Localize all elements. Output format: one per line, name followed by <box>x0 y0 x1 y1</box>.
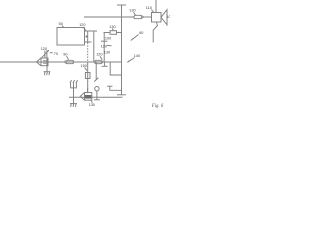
transducer 120 (top, right of box 50) <box>83 27 91 42</box>
label 50 <box>59 22 64 27</box>
flow arrow 130 on top wire <box>134 15 145 20</box>
svg-text:120: 120 <box>41 47 47 51</box>
wire: top horizontal line <box>84 16 134 18</box>
svg-text:120: 120 <box>79 23 85 27</box>
label 120 (above bus arrow) <box>96 53 102 60</box>
wire: vertical line B <box>117 5 126 95</box>
svg-text:100: 100 <box>166 15 170 19</box>
stub terminal under bus 1 <box>102 62 108 66</box>
svg-text:120: 120 <box>101 44 107 48</box>
L branch to vertical B <box>110 62 121 75</box>
label 110 <box>146 6 154 12</box>
svg-text:60: 60 <box>139 31 143 35</box>
flow arrow 90 on bus (pointing left) <box>63 60 74 64</box>
flow arrow 120 on bus (pointing right) <box>95 60 105 64</box>
dark component box (branch F) <box>101 44 112 48</box>
svg-text:130: 130 <box>129 9 135 13</box>
label 130 (top) <box>129 9 135 16</box>
branch F: component 130 row <box>104 28 122 34</box>
label 150 (below bus) <box>81 64 87 70</box>
label 130 (bottom) <box>89 100 95 107</box>
label 70 <box>50 52 58 56</box>
wire: vertical E with T top <box>91 31 98 62</box>
arrow lead 140 <box>127 58 135 64</box>
label 90 <box>63 53 68 60</box>
svg-text:140: 140 <box>134 54 140 58</box>
comb ground symbol <box>70 80 78 104</box>
svg-text:100: 100 <box>105 37 111 41</box>
svg-text:90: 90 <box>63 53 67 57</box>
bus line 1 <box>0 61 122 63</box>
svg-text:130: 130 <box>89 103 95 107</box>
svg-text:120: 120 <box>96 53 102 57</box>
svg-text:Fig. 6: Fig. 6 <box>151 104 164 109</box>
speaker 100 <box>152 0 168 43</box>
microphone 70 <box>36 50 49 72</box>
ground (under mic 70) <box>44 72 51 76</box>
wire: vertical below transducer 120 <box>87 43 89 62</box>
svg-text:110: 110 <box>146 6 152 10</box>
box 50 <box>57 28 85 46</box>
svg-text:130: 130 <box>109 25 115 29</box>
wire: vertical branch F <box>103 33 105 63</box>
arrow lead 60 <box>130 35 138 42</box>
bus line 2 <box>69 96 123 98</box>
svg-text:150: 150 <box>81 64 87 68</box>
svg-text:70: 70 <box>54 52 58 56</box>
svg-text:130: 130 <box>104 51 110 55</box>
ground (bottom, under comb) <box>70 104 77 107</box>
stub branch with top bar <box>107 86 121 90</box>
switch + circle branch <box>94 62 100 100</box>
capacitor plate (branch F) <box>101 40 108 42</box>
transducer 130 (bottom middle) <box>80 88 92 100</box>
small component on dashed line <box>85 73 90 79</box>
